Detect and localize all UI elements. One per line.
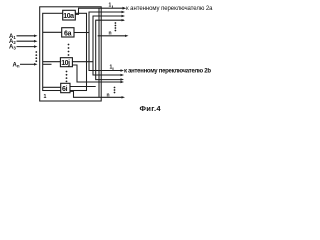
inner box 1 — [43, 13, 87, 90]
bottom arrow 2 head — [121, 74, 125, 76]
block 10a — [63, 10, 76, 20]
wire A3 into box — [17, 45, 38, 48]
top arrow 4 head — [122, 19, 126, 21]
bus wire V1 (6a channel) — [89, 12, 124, 71]
bus wire V3 (6i channel) — [96, 20, 124, 79]
svg-text:10j: 10j — [61, 60, 70, 67]
bus wire V2 (10j channel) — [93, 16, 124, 75]
svg-text:1: 1 — [110, 65, 113, 71]
svg-text:A3: A3 — [9, 45, 16, 51]
top arrow 2 head — [122, 11, 126, 13]
wire to block 6i input — [43, 86, 61, 88]
block 10j — [60, 58, 72, 67]
bottom arrow n head — [122, 96, 126, 98]
svg-text:n: n — [109, 31, 112, 37]
bottom arrow 4 head — [121, 81, 125, 83]
top arrow n — [98, 35, 129, 37]
outer box (device enclosure) — [40, 7, 101, 101]
wire 6i output — [70, 86, 96, 88]
ellipsis dots left inputs — [35, 51, 37, 62]
svg-text:Фиг.4: Фиг.4 — [140, 104, 162, 113]
svg-text:1: 1 — [44, 94, 47, 100]
wire to block 10j input — [43, 61, 61, 63]
svg-text:к антенному переключателю 2b: к антенному переключателю 2b — [124, 68, 211, 74]
leader tick top 1 — [112, 6, 114, 8]
block 6i — [61, 83, 70, 93]
svg-text:An: An — [13, 62, 20, 68]
bottom arrow 3 head — [121, 78, 125, 80]
wire 6a output — [74, 32, 89, 34]
ellipsis dots bottom right — [114, 87, 116, 94]
top arrow 3 head — [122, 15, 126, 17]
leader tick bottom 1 — [112, 68, 114, 71]
wire to block 6a input — [43, 31, 62, 33]
top arrow 1 to antenna switch 2a — [123, 7, 127, 10]
ellipsis dots between 6a and 10j — [68, 44, 70, 56]
block 6a — [62, 28, 74, 38]
wire 10j second output down — [72, 65, 121, 82]
bus wire V4 down right side — [98, 8, 100, 97]
wire An into box — [20, 63, 38, 66]
bottom arrow 1 head — [121, 69, 125, 71]
svg-text:n: n — [107, 93, 110, 99]
wire A1 into box — [17, 35, 38, 38]
svg-text:к антенному переключателю 2а: к антенному переключателю 2а — [126, 6, 213, 12]
ellipsis dots top right — [115, 22, 117, 31]
wire A2 into box — [17, 40, 38, 43]
ellipsis dots between 10j and 6i — [66, 71, 68, 83]
svg-text:6i: 6i — [62, 86, 68, 93]
wire 10a output to top arrow 1 — [75, 8, 123, 14]
svg-text:6а: 6а — [64, 30, 72, 37]
wire 6i second output down to bottom n arrow — [70, 91, 123, 97]
svg-text:10а: 10а — [63, 13, 74, 20]
svg-text:1: 1 — [109, 3, 112, 9]
wire stub from An entry — [43, 63, 52, 65]
wire 10j output — [72, 61, 93, 63]
